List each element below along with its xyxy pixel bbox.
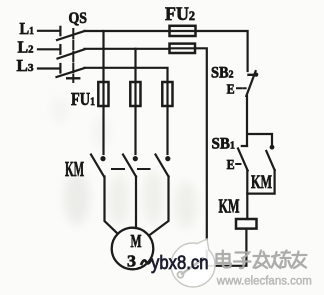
fuse FU2 lower [170, 44, 196, 53]
wire bus L3 [85, 68, 168, 82]
fuse FU1 phase 3 [162, 82, 172, 106]
phase label L3 [17, 56, 35, 75]
wire motor lead 2 [135, 177, 137, 229]
wire L1 lead [38, 30, 60, 32]
fuse FU1 phase 1 [98, 82, 108, 106]
wire KM aux branch bottom [247, 170, 274, 194]
KM main contact 2 [123, 155, 138, 177]
svg-text:SB2: SB2 [211, 65, 234, 82]
QS pole 1 fixed contact tick [59, 27, 61, 35]
QS pole 3 fixed contact tick [59, 64, 61, 73]
start button label SB1 [212, 136, 236, 153]
svg-text:QS: QS [69, 10, 88, 27]
wire control feed (fuse FU2 upper to SB2) [196, 31, 248, 71]
svg-text:KM: KM [219, 197, 240, 218]
wire phase 3 to contact [166, 106, 168, 154]
wire SB2 to SB1 [246, 96, 248, 146]
svg-text:L1: L1 [20, 19, 35, 38]
QS pole 3 blade [57, 68, 85, 77]
wire bus L2 [85, 48, 170, 50]
wire motor lead 3 [149, 177, 169, 236]
watermark text ybx8.cn [151, 253, 209, 274]
wire KM aux branch top [248, 134, 272, 145]
svg-text:KM: KM [65, 157, 84, 181]
KM aux contact fixed dot [270, 145, 275, 150]
KM main contact 3 [156, 155, 171, 177]
SB2 operator dashes [237, 87, 246, 89]
wire motor lead 1 [105, 177, 118, 234]
SB1 operator dash [236, 163, 240, 165]
svg-text:SB1: SB1 [212, 136, 236, 153]
motor label 3 [127, 252, 136, 271]
motor M circle [112, 228, 154, 270]
svg-text:E: E [227, 82, 235, 97]
contactor label KM (coil) [219, 197, 240, 218]
svg-text:L2: L2 [18, 38, 34, 57]
fuse FU1 phase 2 [130, 82, 140, 106]
wire phase 2 to contact [134, 106, 136, 154]
contactor coil KM [236, 219, 257, 229]
SB2 fixed contact bar [249, 73, 259, 77]
SB2 blade [246, 71, 255, 96]
svg-text:M: M [131, 231, 142, 251]
SB1 blade [238, 149, 248, 171]
wire phase 1 drop [102, 31, 104, 82]
fuse label FU1 [71, 89, 95, 109]
motor label ~ [142, 260, 151, 264]
svg-text:ybx8.cn: ybx8.cn [151, 253, 209, 274]
phase label L2 [18, 38, 34, 57]
svg-text:KM: KM [251, 172, 272, 193]
svg-text:FU2: FU2 [165, 4, 195, 25]
SB1 operator label E [227, 157, 235, 172]
wire phase 1 to contact [102, 106, 104, 154]
contactor label KM (main contacts) [65, 157, 84, 181]
KM main contact 1 [91, 155, 106, 177]
wire L3 lead [38, 67, 60, 69]
wire phase 2 drop [134, 49, 136, 82]
svg-text:FU1: FU1 [71, 89, 95, 109]
fuse FU2 upper [170, 26, 196, 36]
SB2 operator label E [227, 82, 235, 97]
svg-text:E: E [227, 157, 235, 172]
svg-text:3: 3 [127, 252, 136, 271]
svg-text:www.elecfans.com: www.elecfans.com [216, 276, 312, 288]
KM aux contact blade [266, 151, 274, 170]
wire bus L1 [85, 30, 170, 32]
watermark stamp circle [171, 239, 215, 287]
QS pole 2 fixed contact tick [59, 45, 61, 54]
SB1 fixed contact tick [242, 145, 247, 147]
motor label M [131, 231, 142, 251]
svg-text:L3: L3 [17, 56, 35, 75]
phase label L1 [20, 19, 35, 38]
contactor label KM (aux contact) [251, 172, 272, 193]
watermark url www.elecfans.com [216, 276, 312, 288]
fuse label FU2 [165, 4, 195, 25]
QS mechanical link [67, 29, 79, 82]
wire coil to bottom return [207, 229, 247, 266]
stop button label SB2 [211, 65, 234, 82]
switch label QS [69, 10, 88, 27]
wire SB1 to coil [246, 171, 248, 220]
QS pole 2 blade [58, 49, 85, 58]
KM contacts mechanical link (dashes) [112, 168, 150, 170]
wire L2 lead [38, 48, 60, 50]
QS pole 1 blade [57, 31, 85, 40]
watermark CJK text (grey) [217, 251, 307, 269]
wire control return (fuse FU2 lower down) [195, 48, 207, 265]
